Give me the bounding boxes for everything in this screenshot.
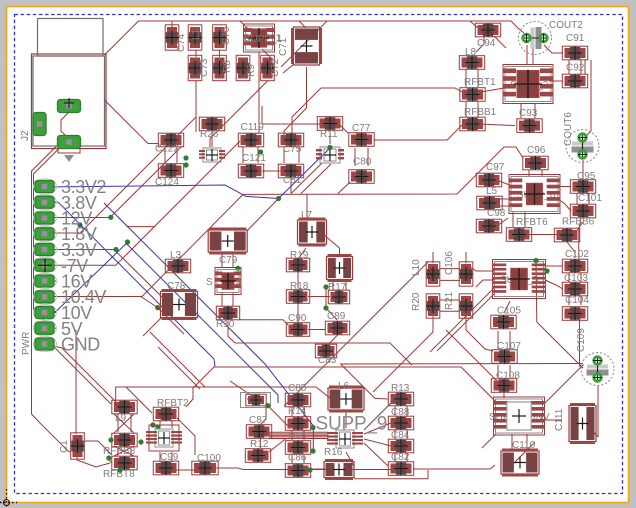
svg-text:RFBB6: RFBB6 [562, 217, 595, 228]
svg-text:SUPP_9: SUPP_9 [316, 414, 388, 435]
svg-text:PWR: PWR [21, 332, 32, 355]
svg-text:COUT6: COUT6 [563, 112, 574, 146]
svg-text:R26: R26 [200, 129, 219, 140]
svg-text:C105: C105 [497, 306, 521, 317]
svg-text:C109: C109 [576, 328, 587, 352]
svg-text:L3: L3 [170, 250, 182, 261]
svg-text:C110: C110 [512, 440, 536, 451]
svg-text:C80: C80 [353, 157, 372, 168]
svg-text:C107: C107 [497, 341, 521, 352]
svg-text:C89: C89 [327, 311, 346, 322]
svg-text:C1: C1 [59, 440, 70, 453]
svg-text:C73: C73 [199, 58, 210, 77]
svg-text:R17: R17 [328, 282, 347, 293]
svg-text:R10: R10 [216, 319, 235, 330]
svg-text:R12: R12 [250, 439, 269, 450]
svg-text:R18: R18 [290, 281, 309, 292]
svg-text:RFBT6: RFBT6 [516, 217, 548, 228]
svg-text:C93: C93 [519, 108, 538, 119]
svg-text:C88: C88 [391, 407, 410, 418]
svg-text:C82: C82 [391, 452, 410, 463]
svg-text:C77: C77 [352, 123, 371, 134]
svg-text:C87: C87 [249, 415, 268, 426]
svg-text:C83: C83 [318, 355, 337, 366]
svg-text:C99: C99 [160, 452, 179, 463]
svg-text:C102: C102 [565, 249, 589, 260]
svg-text:R21: R21 [444, 291, 455, 310]
svg-text:C85: C85 [288, 383, 307, 394]
svg-text:RFBT2: RFBT2 [157, 398, 189, 409]
svg-text:C103: C103 [564, 273, 588, 284]
svg-text:R15: R15 [288, 431, 307, 442]
svg-text:RFBT1: RFBT1 [464, 77, 496, 88]
svg-text:L7: L7 [301, 210, 313, 221]
svg-text:L5: L5 [486, 186, 498, 197]
svg-text:L8: L8 [465, 47, 477, 58]
svg-text:RFBB1: RFBB1 [464, 107, 497, 118]
svg-text:C75: C75 [283, 144, 302, 155]
svg-text:L6: L6 [338, 381, 350, 392]
svg-text:C108: C108 [496, 371, 520, 382]
svg-text:J2: J2 [20, 130, 31, 141]
svg-text:R14: R14 [288, 406, 307, 417]
svg-text:C97: C97 [486, 162, 505, 173]
svg-text:C104: C104 [565, 295, 589, 306]
svg-text:C70: C70 [221, 26, 232, 45]
svg-text:C111: C111 [554, 408, 565, 431]
svg-text:C122: C122 [155, 144, 179, 155]
svg-text:L10: L10 [411, 259, 422, 276]
svg-text:C98: C98 [487, 208, 506, 219]
svg-text:C72: C72 [270, 58, 281, 77]
svg-text:C95: C95 [577, 171, 596, 182]
svg-text:C96: C96 [527, 145, 546, 156]
svg-text:C121: C121 [242, 153, 266, 164]
svg-text:L1: L1 [191, 28, 202, 40]
svg-text:C74: C74 [176, 33, 187, 52]
svg-text:R11: R11 [320, 129, 338, 140]
svg-text:C79: C79 [219, 255, 238, 266]
svg-text:S: S [206, 277, 213, 288]
svg-text:C84: C84 [391, 430, 410, 441]
svg-text:C90: C90 [288, 313, 307, 324]
svg-text:C101: C101 [578, 193, 602, 204]
svg-text:SUPP_1: SUPP_1 [244, 34, 283, 45]
svg-text:R13: R13 [391, 383, 410, 394]
svg-text:GND: GND [61, 335, 100, 355]
svg-text:C100: C100 [197, 453, 221, 464]
svg-text:C106: C106 [444, 251, 455, 275]
svg-text:C124: C124 [155, 177, 179, 188]
svg-text:R19: R19 [290, 250, 309, 261]
svg-text:R8: R8 [222, 60, 233, 73]
svg-text:C81: C81 [283, 175, 302, 186]
svg-text:R16: R16 [324, 447, 343, 458]
svg-text:C86: C86 [288, 453, 307, 464]
svg-text:C92: C92 [566, 63, 585, 74]
svg-text:R20: R20 [411, 292, 422, 311]
svg-text:C119: C119 [241, 122, 265, 133]
svg-text:RFBB8: RFBB8 [103, 446, 136, 457]
svg-text:L9: L9 [115, 413, 127, 424]
svg-text:COUT2: COUT2 [549, 20, 583, 31]
svg-text:C94: C94 [477, 38, 496, 49]
svg-text:C78: C78 [167, 281, 186, 292]
svg-text:4: 4 [236, 277, 242, 288]
svg-text:C91: C91 [566, 33, 585, 44]
svg-text:R9: R9 [246, 64, 257, 77]
